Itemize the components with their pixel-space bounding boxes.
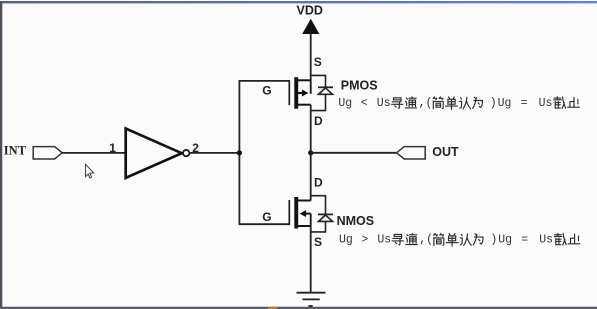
svg-text:,(: ,( [419, 97, 433, 110]
svg-text:<: < [361, 97, 368, 110]
inverter output bubble [183, 150, 189, 156]
wire NMOS gate lead [239, 223, 290, 225]
svg-text:Us: Us [539, 97, 553, 110]
svg-text:G: G [262, 84, 271, 98]
svg-text:S: S [314, 235, 322, 249]
node: gate bus junction dot [237, 150, 242, 155]
transistor NMOS [289, 197, 310, 229]
svg-text:S: S [314, 55, 322, 69]
svg-text:1: 1 [109, 141, 116, 155]
wire output node to NMOS drain [310, 153, 312, 201]
svg-text:=: = [521, 234, 528, 247]
wire PMOS drain to output node [310, 105, 312, 154]
body diode of NMOS [311, 196, 333, 232]
svg-text:Ug: Ug [498, 97, 512, 110]
svg-text:NMOS: NMOS [337, 214, 375, 228]
svg-text:Ug: Ug [498, 234, 512, 247]
svg-text:,(: ,( [419, 234, 433, 247]
node: output junction dot [308, 150, 313, 155]
port OUT [397, 147, 426, 159]
wire INT to inverter input [62, 152, 126, 154]
svg-text:G: G [262, 210, 271, 224]
mouse cursor [86, 164, 94, 178]
svg-text:D: D [314, 114, 323, 128]
body diode of PMOS [311, 75, 333, 110]
svg-text:Us: Us [377, 97, 391, 110]
inverter U1 [126, 129, 182, 178]
svg-text:>: > [361, 234, 368, 247]
transistor PMOS [289, 77, 310, 109]
ground [297, 293, 326, 306]
svg-text:Ug: Ug [339, 234, 353, 247]
annotation row 2 (NMOS behavior) [339, 233, 580, 246]
VDD power arrow [302, 19, 319, 34]
port INT [33, 147, 62, 159]
wire inverter output to gate node [190, 152, 240, 154]
svg-text:Ug: Ug [338, 97, 352, 110]
wire PMOS gate lead [239, 80, 290, 82]
svg-text:=: = [521, 97, 528, 110]
svg-text:): ) [490, 97, 497, 110]
wire VDD to PMOS source [310, 34, 312, 81]
svg-text:PMOS: PMOS [341, 78, 378, 92]
annotation row 1 (PMOS behavior) [338, 97, 579, 110]
svg-text:VDD: VDD [297, 4, 323, 18]
wire output node to OUT port [311, 152, 397, 154]
svg-text:): ) [490, 234, 497, 247]
svg-text:Us: Us [377, 234, 391, 247]
wire gate bus vertical [238, 80, 240, 225]
svg-text:OUT: OUT [432, 145, 459, 159]
svg-text:INT: INT [4, 143, 27, 157]
svg-text:D: D [314, 175, 323, 189]
wire NMOS source to ground [310, 226, 312, 293]
svg-text:Us: Us [539, 234, 553, 247]
